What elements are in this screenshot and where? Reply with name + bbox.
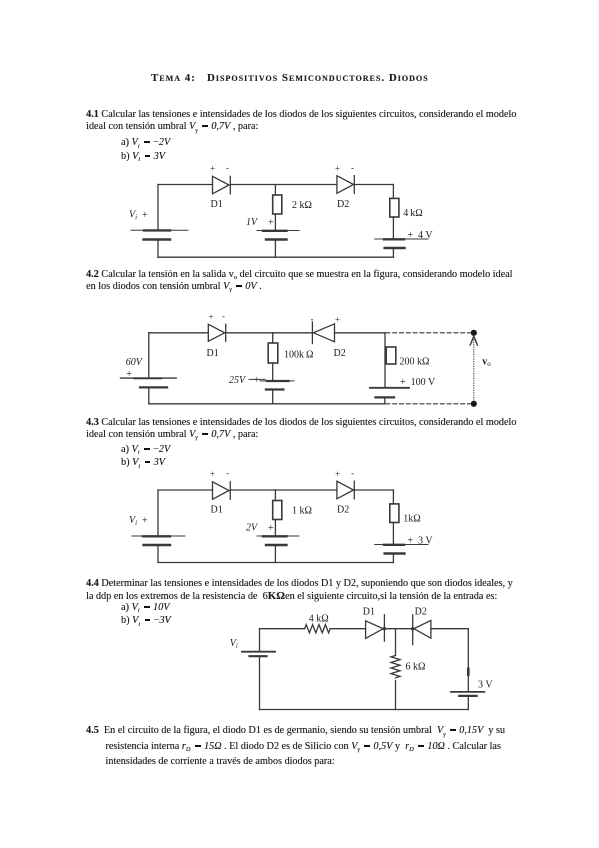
wire 6k branch upper [395,629,397,656]
svg-text:vo: vo [482,357,491,369]
wire top middle segment [226,332,313,334]
battery 4V [375,239,428,248]
wire bottom [260,709,469,711]
svg-text:+: + [142,516,148,527]
node output top [471,330,477,336]
svg-text:D1: D1 [211,199,223,210]
wire below battery 4V [392,249,394,258]
wire left vertical [148,333,150,378]
item 4.1 a [121,137,170,149]
svg-text:2 kΩ: 2 kΩ [292,200,312,211]
wire top right segment [335,332,386,334]
item 4.3 b [121,457,165,469]
svg-text:100k Ω: 100k Ω [284,349,313,360]
svg-text:-: - [222,311,225,321]
svg-text:+: + [126,369,132,380]
svg-text:+: + [254,375,260,386]
wire D1 to D2 [384,628,412,630]
title [151,73,429,83]
svg-text:-: - [226,163,229,173]
wire 100k to battery 25V [272,363,274,381]
item 4.4 b [121,615,171,627]
battery 60V [121,378,177,387]
problem 4.2 text [86,269,512,293]
svg-text:4 kΩ: 4 kΩ [309,614,329,625]
wire below battery Vi [157,546,159,563]
svg-text:D2: D2 [337,199,349,210]
wire left vertical [157,185,159,231]
wire left vertical [157,490,159,536]
battery 1V [257,231,299,240]
svg-text:3 V: 3 V [478,680,493,691]
wire below battery 25V [272,390,274,404]
wire below battery 2V [274,546,276,563]
diode D1 [208,324,225,341]
wire below battery Vi [157,240,159,257]
resistor 6k zigzag vertical [391,656,400,678]
resistor 4k [390,198,399,217]
wire 2k branch upper [274,185,276,196]
resistor 2k [273,195,282,214]
diode D2 (points left) [312,322,334,344]
diode D2 [337,481,354,499]
resistor 1k mid [273,501,282,520]
problem 4.4 text [86,578,513,603]
wire 2k to battery 1V [274,214,276,230]
resistor 4k zigzag [305,625,331,633]
wire bottom [158,256,393,258]
wire 200k branch vertical [384,333,386,388]
tick mark on right wire [467,669,470,675]
resistor 200k [386,347,396,364]
wire top dashed to output [386,332,470,334]
wire D2 to right [431,628,468,630]
diode D1 [213,176,231,194]
wire 1k to battery 3V [392,523,394,545]
svg-text:+: + [210,163,215,173]
svg-text:+: + [335,163,340,173]
wire right 1k branch upper [392,490,394,504]
wire below battery Vi [259,657,261,710]
battery 2V [257,536,299,545]
battery 100V [370,388,409,398]
wire 4k to battery 4V [392,217,394,239]
svg-text:-: - [226,468,229,478]
wire top left segment [158,489,213,491]
svg-text:1V: 1V [246,217,259,228]
wire below battery 1V [274,240,276,257]
svg-text:4 kΩ: 4 kΩ [403,208,422,219]
vo arrow head [470,336,477,345]
resistor 1k right [390,504,399,523]
svg-text:-: - [311,314,314,324]
wire top middle segment [230,489,337,491]
svg-text:1kΩ: 1kΩ [403,514,420,525]
wire 1k branch upper [274,490,276,501]
svg-text:+: + [335,315,340,325]
svg-text:Vi: Vi [129,210,137,222]
item 4.4 a [121,602,169,614]
problem 4.1 text [86,109,516,133]
node junction D2 [411,627,414,630]
battery 3V [451,692,484,696]
wire 1k to battery 2V [274,520,276,536]
svg-text:2V: 2V [246,523,259,534]
resistor 100k [268,343,278,363]
problem 4.5 text [86,723,505,770]
battery 3V [375,545,428,554]
wire bottom solid [149,403,385,405]
wire 6k lower [395,681,397,710]
wire below battery 60V [148,388,150,404]
svg-text:D1: D1 [363,607,375,618]
wire below battery 3V [467,696,469,709]
battery Vi [132,536,185,545]
svg-text:+ 4 V: + 4 V [407,230,433,241]
vo arrow dotted shaft [473,337,475,401]
wire resistor to D1 [330,628,365,630]
wire top right segment [354,184,393,186]
svg-text:D2: D2 [415,607,427,618]
svg-text:1 kΩ: 1 kΩ [292,506,312,517]
battery Vi [242,652,275,657]
svg-text:-: - [351,163,354,173]
svg-text:Vi: Vi [230,638,238,650]
item 4.3 a [121,444,170,456]
wire below battery 3V [392,554,394,563]
wire bottom [158,562,393,564]
svg-text:D2: D2 [334,348,346,359]
diode D1 [213,482,231,500]
svg-text:D2: D2 [337,505,349,516]
svg-text:D1: D1 [211,505,223,516]
item 4.1 b [121,151,165,163]
battery 25V [249,379,294,389]
svg-text:+ 3 V: + 3 V [407,536,433,547]
svg-text:D1: D1 [207,348,219,359]
svg-text:+: + [210,469,215,479]
svg-text:60V: 60V [126,357,144,368]
svg-text:+: + [268,523,274,534]
wire right vertical [467,629,469,692]
wire top left [260,628,305,630]
node output bottom [471,401,477,407]
svg-text:+ 100 V: + 100 V [400,377,436,388]
wire top left segment [158,184,213,186]
svg-text:+: + [268,218,274,229]
diode D2 (points left) [413,615,431,645]
svg-text:+: + [335,469,340,479]
wire top middle segment [230,184,337,186]
wire 4k branch upper [392,185,394,199]
svg-text:-: - [351,468,354,478]
wire top left segment [149,332,209,334]
wire below battery 100V [384,398,386,404]
diode D1 [366,615,385,641]
svg-text:200 kΩ: 200 kΩ [400,357,430,368]
battery Vi [131,230,188,239]
svg-text:Vi: Vi [129,515,137,527]
wire top left vertical [259,629,261,652]
diode D2 [337,176,354,194]
problem 4.3 text [86,417,516,441]
wire bottom dashed to output [386,403,470,405]
svg-text:+: + [209,312,214,322]
svg-text:25V: 25V [229,375,247,386]
svg-text:+: + [142,210,148,221]
wire top right segment [354,489,393,491]
node junction D1 [383,627,386,630]
svg-text:6 kΩ: 6 kΩ [406,662,426,673]
wire 100k branch upper [272,333,274,343]
